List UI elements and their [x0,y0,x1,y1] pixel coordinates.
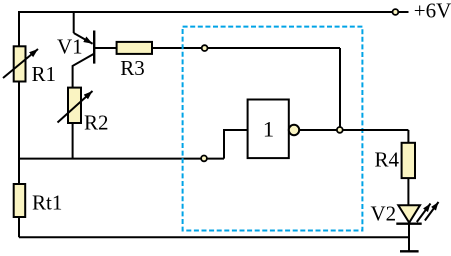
svg-text:+6V: +6V [414,0,451,23]
gate output bubble [289,125,299,135]
node +6V terminal [393,9,399,15]
wire R2 to middle rail [72,123,74,159]
rheostat R2 [58,88,93,123]
LED V2 [396,202,438,224]
wire middle horizontal [19,158,224,160]
svg-text:R3: R3 [120,56,145,80]
resistor R4 [402,143,415,178]
wire top rail +6V [19,11,393,13]
resistor R1 [3,46,38,81]
svg-text:R2: R2 [84,110,109,134]
wire gate output [299,129,408,131]
wire bottom rail [19,236,409,238]
wire R3 to feedback vertical [152,47,340,49]
wire left vertical [18,11,20,237]
wire feedback vertical [339,48,341,130]
svg-text:1: 1 [263,117,274,142]
svg-text:Rt1: Rt1 [32,191,62,215]
IC boundary dashed box [183,27,363,231]
ground terminal bar [400,250,419,252]
gate U1 [248,100,289,159]
transistor V1 [73,12,117,88]
node output junction [337,127,343,133]
svg-text:V1: V1 [57,35,83,59]
wire output to R4 [407,130,409,143]
svg-text:R4: R4 [375,148,400,172]
svg-text:R1: R1 [32,62,57,86]
svg-text:V2: V2 [371,202,397,226]
thermistor Rt1 [14,184,26,217]
wire gate input step [224,130,248,159]
wire LED to bottom rail [408,224,410,252]
wire +6V stub [398,11,408,13]
pin top input [202,45,208,51]
pin bottom input [201,156,207,162]
resistor R3 [117,42,152,54]
wire R4 to LED [407,178,409,205]
